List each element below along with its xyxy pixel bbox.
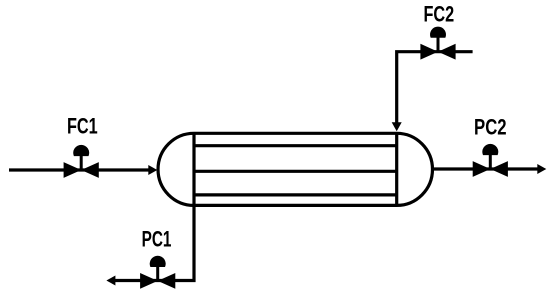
wire: feed inlet line [9,168,149,171]
tube line 1 [194,144,397,147]
wire: product outlet line [431,167,538,170]
arrow: drain outlet [106,276,115,286]
heat exchanger shell (capsule) [158,133,432,205]
arrow: product outlet [537,164,546,174]
svg-text:PC2: PC2 [474,114,507,139]
tube sheet left [192,132,195,207]
wire: FC2 branch (from right, over and down into shell) [397,52,473,125]
valve PC2 [473,144,508,177]
valve FC2 [420,27,455,60]
arrow: FC2 feed down into shell [392,122,402,131]
valve PC1 [140,256,175,289]
wire: drain line (down from left tube sheet, then left) [115,205,194,281]
svg-text:FC1: FC1 [67,114,98,139]
tube line 3 [194,193,397,196]
tube line 2 [194,170,397,173]
svg-text:PC1: PC1 [142,227,172,252]
tube sheet right [395,132,398,207]
arrow: feed into left head [148,165,157,175]
svg-text:FC2: FC2 [423,1,454,26]
valve FC1 [64,145,99,178]
